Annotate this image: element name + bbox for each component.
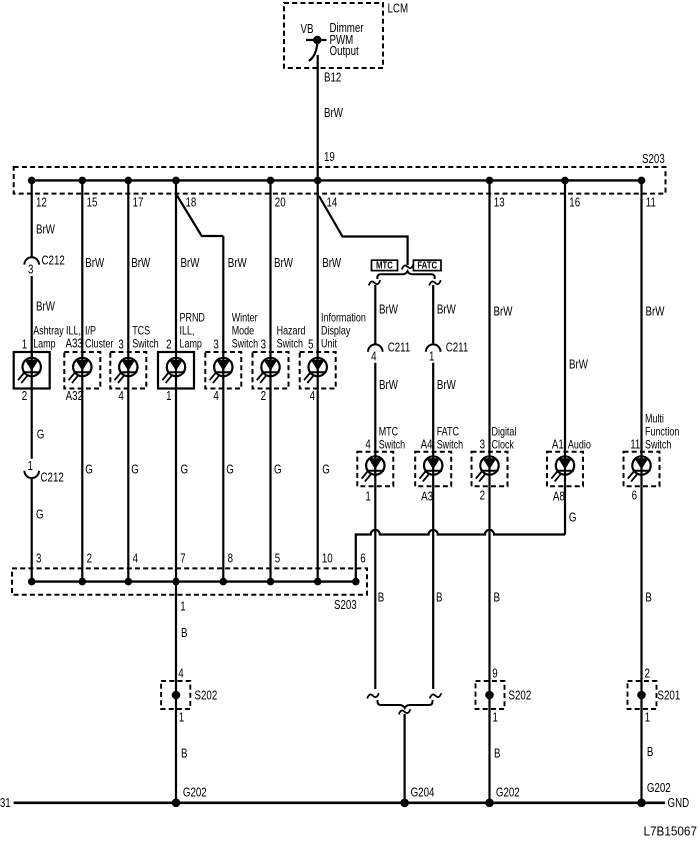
svg-text:1: 1 <box>166 390 171 403</box>
svg-text:BrW: BrW <box>379 303 398 316</box>
junction dot on splice S203 <box>314 177 322 185</box>
svg-text:4: 4 <box>371 350 376 363</box>
svg-text:G202: G202 <box>647 782 671 795</box>
svg-text:3: 3 <box>36 552 41 565</box>
svg-text:Ashtray ILL,: Ashtray ILL, <box>33 326 81 338</box>
svg-text:31: 31 <box>0 797 11 810</box>
svg-text:1: 1 <box>179 711 184 724</box>
svg-text:B: B <box>378 591 384 604</box>
svg-text:BrW: BrW <box>322 257 341 270</box>
svg-text:S201: S201 <box>658 689 681 702</box>
wire through Digital Clock lamp <box>488 452 490 487</box>
LCM module box <box>284 3 383 68</box>
svg-text:L7B15067: L7B15067 <box>643 824 697 838</box>
svg-text:17: 17 <box>133 196 144 209</box>
svg-text:11: 11 <box>630 438 640 451</box>
svg-text:1: 1 <box>22 338 27 351</box>
wire S203 pin11 to Multi Function Switch pin11 (BrW) <box>640 180 642 451</box>
svg-text:C212: C212 <box>41 471 64 484</box>
svg-text:2: 2 <box>261 390 266 403</box>
junction dot on splice S203 <box>486 177 494 185</box>
connector C212 upper half (pin 3) <box>24 257 39 264</box>
splice S203 lower bus solid wire <box>32 580 356 582</box>
connector C211 FATC half (pin 1) <box>426 344 441 351</box>
svg-text:4: 4 <box>310 390 315 403</box>
svg-text:18: 18 <box>186 196 197 209</box>
junction dot on splice S203 <box>267 177 275 185</box>
svg-text:G: G <box>37 428 45 441</box>
wire S203 pin12 to connector C212 pin3 (BrW) <box>31 180 33 257</box>
wire I/P Cluster A32 to splice S203 pin2 (G) <box>81 389 83 582</box>
svg-text:G: G <box>322 463 330 476</box>
wire TCS pin4 to splice S203 pin4 (G) <box>127 389 129 582</box>
Winter Mode Switch dashed box <box>205 352 241 389</box>
node VB junction dot <box>313 36 321 44</box>
label Winter Mode Switch <box>232 313 259 351</box>
svg-text:Display: Display <box>321 326 351 338</box>
label Ashtray ILL, Lamp <box>33 326 81 351</box>
svg-text:A3: A3 <box>421 490 433 503</box>
svg-text:Multi: Multi <box>645 414 664 426</box>
option merge brace (bottom) <box>378 700 433 708</box>
svg-text:A4: A4 <box>421 438 433 451</box>
svg-text:3: 3 <box>28 263 33 276</box>
splice S202 dashed box (Digital Clock path) <box>476 681 505 709</box>
lamp Ashtray illumination bulb <box>18 358 41 383</box>
svg-text:GND: GND <box>668 797 690 810</box>
svg-text:Winter: Winter <box>232 313 258 325</box>
svg-text:Lamp: Lamp <box>33 339 56 351</box>
svg-text:BrW: BrW <box>379 379 398 392</box>
junction dot on lower splice S203 <box>79 578 87 586</box>
svg-text:A8: A8 <box>553 490 565 503</box>
wire Winter Mode Switch drop <box>222 236 224 352</box>
junction dot on lower splice S203 <box>352 578 360 586</box>
connector C212 lower half (pin 1) <box>24 471 39 478</box>
svg-text:Switch: Switch <box>437 440 464 452</box>
wire through TCS Switch lamp <box>127 352 129 389</box>
svg-text:1: 1 <box>27 460 32 473</box>
svg-text:Lamp: Lamp <box>180 339 203 351</box>
wire jog from pin18 to Winter Mode Switch (BrW) <box>177 196 223 237</box>
svg-text:ILL,: ILL, <box>180 326 195 338</box>
svg-text:Switch: Switch <box>645 440 672 452</box>
svg-text:G: G <box>569 511 577 524</box>
Multi Function Switch dashed box <box>624 452 660 487</box>
svg-text:19: 19 <box>324 151 335 164</box>
wire Digital Clock pin2 down (B) <box>488 486 490 803</box>
svg-text:Switch: Switch <box>277 339 304 351</box>
svg-text:B: B <box>647 746 653 759</box>
svg-text:1: 1 <box>645 711 650 724</box>
wire FATC branch to C211 pin1 (BrW) <box>432 285 434 344</box>
svg-text:FATC: FATC <box>417 260 437 271</box>
break squiggle MTC branch bottom <box>367 693 379 698</box>
break squiggle FATC branch bottom <box>430 693 442 698</box>
wire Ashtray Lamp pin2 to C212 pin1 (G) <box>31 389 33 459</box>
TCS Switch dashed box <box>110 352 146 389</box>
svg-text:4: 4 <box>365 438 370 451</box>
splice S203 lower dashed box <box>12 568 367 594</box>
lamp I/P Cluster illumination bulb <box>69 358 92 383</box>
svg-text:3: 3 <box>118 338 123 351</box>
svg-text:Mode: Mode <box>232 326 255 338</box>
svg-text:A32: A32 <box>66 390 83 403</box>
junction dot on lower splice S203 <box>28 578 36 586</box>
wire through Multi Function lamp <box>640 452 642 487</box>
svg-text:G204: G204 <box>411 786 435 799</box>
svg-text:B: B <box>436 591 442 604</box>
svg-text:S202: S202 <box>509 689 532 702</box>
svg-text:2: 2 <box>87 552 92 565</box>
lamp FATC Switch illumination bulb <box>420 456 443 481</box>
svg-text:6: 6 <box>632 489 637 502</box>
svg-text:Output: Output <box>330 45 360 58</box>
junction dot at ground G204 <box>400 799 409 808</box>
lamp Digital Clock illumination bulb <box>476 456 499 481</box>
wire lower S203 pin1 output down (B) <box>175 582 177 803</box>
svg-text:Cluster: Cluster <box>85 339 114 351</box>
wire through Ashtray Lamp <box>31 352 33 389</box>
junction dot on lower splice S203 <box>172 578 180 586</box>
svg-text:Function: Function <box>645 427 680 439</box>
svg-text:A1: A1 <box>552 438 564 451</box>
svg-text:C212: C212 <box>42 254 65 267</box>
junction dot splice S202 <box>172 691 181 700</box>
svg-text:BrW: BrW <box>437 379 456 392</box>
wire through MTC Switch lamp <box>374 452 376 487</box>
junction dot splice S202 (Digital Clock path) <box>485 691 494 700</box>
svg-text:2: 2 <box>166 338 171 351</box>
svg-text:VB: VB <box>301 23 314 36</box>
Ashtray Lamp box <box>14 352 50 389</box>
wire PRND pin1 to splice S203 pin7 (G) <box>175 389 177 582</box>
svg-text:6: 6 <box>360 552 365 565</box>
svg-text:G: G <box>36 508 44 521</box>
svg-text:BrW: BrW <box>85 257 104 270</box>
svg-text:1: 1 <box>429 350 434 363</box>
splice S203 top dashed box <box>14 167 666 194</box>
wire branch from pin14 to MTC-FATC option split <box>319 196 408 265</box>
label TCS Switch <box>132 326 159 351</box>
svg-text:8: 8 <box>228 552 233 565</box>
svg-text:S202: S202 <box>195 689 218 702</box>
svg-text:BrW: BrW <box>36 223 55 236</box>
splice S201 dashed box <box>628 681 657 709</box>
label MTC Switch <box>379 427 406 452</box>
Audio dashed box <box>547 452 583 487</box>
svg-text:A33: A33 <box>65 337 82 350</box>
junction dot on lower splice S203 <box>125 578 133 586</box>
svg-text:TCS: TCS <box>132 326 150 338</box>
Hazard Switch dashed box <box>253 352 289 389</box>
svg-text:S203: S203 <box>334 599 357 612</box>
wire LCM output B12 down to splice S203 (pin 19) <box>317 55 319 180</box>
wire FATC Switch pinA3 down (B) <box>432 486 434 689</box>
splice S202 dashed box (PRND path) <box>161 681 190 709</box>
I/P Cluster dashed box <box>64 352 100 389</box>
svg-text:1: 1 <box>180 600 185 613</box>
label Hazard Switch <box>277 326 306 351</box>
junction dot at ground G202 (PRND path) <box>172 799 181 808</box>
svg-text:7: 7 <box>180 552 185 565</box>
wire through Audio lamp <box>564 452 566 487</box>
svg-text:13: 13 <box>494 196 505 209</box>
svg-text:11: 11 <box>646 196 656 209</box>
svg-text:G: G <box>85 463 93 476</box>
wire C212 to splice S203 pin3 (G) <box>31 478 33 581</box>
lamp MTC Switch illumination bulb <box>362 456 385 481</box>
break squiggle MTC branch top <box>369 280 381 285</box>
junction dot on lower splice S203 <box>220 578 228 586</box>
wire through PRND lamp <box>175 352 177 389</box>
svg-text:Digital: Digital <box>492 427 517 439</box>
lamp Hazard Switch illumination bulb <box>257 358 280 383</box>
svg-text:14: 14 <box>327 196 338 209</box>
junction dot on splice S203 <box>561 177 569 185</box>
svg-text:G: G <box>181 463 189 476</box>
svg-text:Audio: Audio <box>568 440 591 452</box>
wire C211 to MTC Switch pin4 (BrW) <box>374 363 376 452</box>
svg-text:MTC: MTC <box>376 260 393 271</box>
svg-text:I/P: I/P <box>85 326 96 338</box>
svg-text:BrW: BrW <box>36 300 55 313</box>
wire through Winter Mode lamp <box>222 352 224 389</box>
svg-text:G202: G202 <box>183 786 207 799</box>
svg-text:MTC: MTC <box>379 427 399 439</box>
wire merged MTC/FATC to ground G204 <box>404 714 406 803</box>
VB pin stub wire <box>306 39 327 41</box>
label FATC Switch <box>437 427 464 452</box>
junction dot on splice S203 <box>125 177 133 185</box>
label Dimmer PWM Output <box>330 22 364 59</box>
lamp Information Display Unit illumination bulb <box>304 358 327 383</box>
svg-text:BrW: BrW <box>181 257 200 270</box>
wire C211 to FATC Switch pinA4 (BrW) <box>432 363 434 452</box>
svg-text:2: 2 <box>645 667 650 680</box>
PRND ILL Lamp box <box>158 352 194 389</box>
wire S203 pin20 to Hazard Switch pin3 (BrW) <box>269 180 271 352</box>
svg-text:4: 4 <box>118 390 123 403</box>
svg-text:B: B <box>494 591 500 604</box>
wire through Info Display lamp <box>317 352 319 389</box>
svg-text:BrW: BrW <box>494 305 513 318</box>
wire S203 pin16 to Audio pinA1 (BrW) <box>564 180 566 451</box>
wire Audio pinA8 down to G corner <box>564 486 566 534</box>
svg-text:1: 1 <box>365 490 370 503</box>
svg-text:5: 5 <box>308 338 313 351</box>
svg-text:BrW: BrW <box>131 257 150 270</box>
wire S203 pin15 to I/P Cluster A33 (BrW) <box>81 180 83 352</box>
svg-text:2: 2 <box>480 489 485 502</box>
wire S203 pin18 to PRND ILL Lamp pin2 (BrW) <box>175 180 177 352</box>
Digital Clock dashed box <box>472 452 508 487</box>
svg-text:Unit: Unit <box>321 339 337 351</box>
junction dot on splice S203 <box>28 177 36 185</box>
svg-text:B12: B12 <box>324 71 341 84</box>
svg-text:BrW: BrW <box>437 303 456 316</box>
wire MTC branch to C211 pin4 (BrW) <box>374 285 376 344</box>
svg-text:PRND: PRND <box>180 313 205 325</box>
svg-text:FATC: FATC <box>437 427 460 439</box>
svg-text:3: 3 <box>261 338 266 351</box>
junction dot at ground G202 (clock path) <box>485 799 494 808</box>
svg-text:5: 5 <box>275 552 280 565</box>
svg-text:4: 4 <box>178 667 183 680</box>
svg-text:10: 10 <box>322 552 333 565</box>
switch blade inside LCM <box>309 43 318 61</box>
svg-text:Clock: Clock <box>492 440 515 452</box>
lamp PRND ILL bulb <box>162 358 185 383</box>
break squiggle on option feed wire <box>402 264 414 269</box>
lamp TCS Switch illumination bulb <box>115 358 138 383</box>
junction dot on splice S203 <box>172 177 180 185</box>
wire S203 pin14 to Information Display Unit pin5 (BrW) <box>317 180 319 352</box>
svg-text:B: B <box>494 747 500 760</box>
svg-text:B: B <box>645 591 651 604</box>
wire Hazard pin2 to splice S203 pin5 (G) <box>269 389 271 582</box>
svg-text:4: 4 <box>213 390 218 403</box>
junction dot splice S201 <box>637 691 646 700</box>
svg-text:3: 3 <box>213 338 218 351</box>
lamp Audio illumination bulb <box>551 456 574 481</box>
svg-text:2: 2 <box>22 390 27 403</box>
svg-text:G: G <box>131 463 139 476</box>
wire Multi Function pin6 down (B) <box>640 486 642 803</box>
svg-text:G: G <box>274 463 282 476</box>
svg-text:3: 3 <box>480 438 485 451</box>
svg-text:1: 1 <box>493 711 498 724</box>
wire S203 pin17 to TCS Switch pin3 (BrW) <box>127 180 129 352</box>
wire MTC Switch pin1 down (B) <box>374 486 376 689</box>
svg-text:Switch: Switch <box>232 339 259 351</box>
svg-text:BrW: BrW <box>274 257 293 270</box>
ground rail wire 31 to GND <box>14 801 665 804</box>
label I/P Cluster <box>85 326 114 351</box>
svg-text:C211: C211 <box>446 341 469 354</box>
svg-text:9: 9 <box>492 667 497 680</box>
Information Display Unit dashed box <box>300 352 336 389</box>
svg-text:12: 12 <box>36 196 47 209</box>
label Multi Function Switch <box>645 414 680 452</box>
wire C212 to Ashtray Lamp pin1 (BrW) <box>31 276 33 358</box>
svg-text:S203: S203 <box>642 153 665 166</box>
svg-text:Hazard: Hazard <box>277 326 306 338</box>
svg-text:G202: G202 <box>496 786 520 799</box>
lamp Multi Function Switch illumination bulb <box>628 456 651 481</box>
svg-text:B: B <box>181 747 187 760</box>
svg-text:BrW: BrW <box>324 107 343 120</box>
lamp Winter Mode Switch illumination bulb <box>210 358 233 383</box>
break squiggle FATC branch top <box>429 280 441 285</box>
wire S203 pin13 to Digital Clock pin3 (BrW) <box>488 180 490 451</box>
junction dot on splice S203 <box>638 177 646 185</box>
wire through FATC Switch lamp <box>432 452 434 487</box>
wire Winter Mode pin4 to splice S203 pin8 (G) <box>222 389 224 582</box>
svg-text:Switch: Switch <box>132 339 159 351</box>
MTC Switch dashed box <box>357 452 393 487</box>
svg-text:LCM: LCM <box>388 2 409 15</box>
junction dot on lower splice S203 <box>314 578 322 586</box>
wire through I/P Cluster lamp <box>81 352 83 389</box>
label PRND ILL, Lamp <box>180 313 205 351</box>
svg-text:4: 4 <box>133 552 138 565</box>
svg-text:Switch: Switch <box>379 440 406 452</box>
svg-text:C211: C211 <box>388 341 411 354</box>
option split brace (top) <box>377 271 434 279</box>
wire G horizontal run with crossover hops <box>356 530 565 582</box>
svg-text:BrW: BrW <box>646 305 665 318</box>
svg-text:BrW: BrW <box>569 358 588 371</box>
label Digital Clock <box>492 427 517 452</box>
junction dot on lower splice S203 <box>267 578 275 586</box>
junction dot at ground GND corner <box>637 799 646 808</box>
connector C211 MTC half (pin 4) <box>368 344 383 351</box>
svg-text:15: 15 <box>87 196 98 209</box>
svg-text:16: 16 <box>569 196 580 209</box>
option tag box MTC <box>372 260 398 271</box>
junction dot on splice S203 <box>79 177 87 185</box>
splice S203 bus solid wire <box>32 179 642 181</box>
label Information Display Unit <box>321 313 366 351</box>
svg-text:Information: Information <box>321 313 366 325</box>
break squiggle merged wire <box>399 709 411 714</box>
svg-text:G: G <box>226 463 234 476</box>
FATC Switch dashed box <box>415 452 451 487</box>
wire through Hazard lamp <box>269 352 271 389</box>
svg-text:B: B <box>181 627 187 640</box>
svg-text:BrW: BrW <box>228 257 247 270</box>
wire Info Display pin4 to splice S203 pin10 (G) <box>317 389 319 582</box>
option tag box FATC <box>413 260 441 271</box>
svg-text:20: 20 <box>275 196 286 209</box>
